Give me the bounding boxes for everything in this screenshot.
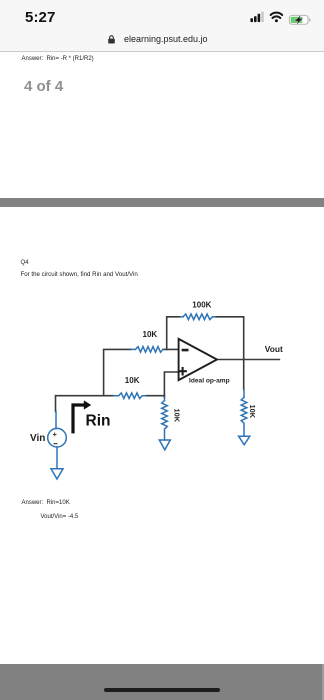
svg-text:Vin: Vin bbox=[30, 433, 45, 444]
svg-text:Rin: Rin bbox=[86, 413, 111, 430]
svg-text:Vout: Vout bbox=[265, 344, 283, 354]
svg-text:10K: 10K bbox=[248, 405, 257, 419]
svg-text:100K: 100K bbox=[192, 301, 211, 310]
svg-text:10K: 10K bbox=[143, 330, 158, 339]
svg-text:Ideal op-amp: Ideal op-amp bbox=[189, 378, 230, 385]
svg-text:10K: 10K bbox=[173, 409, 182, 423]
svg-text:10K: 10K bbox=[125, 376, 140, 385]
